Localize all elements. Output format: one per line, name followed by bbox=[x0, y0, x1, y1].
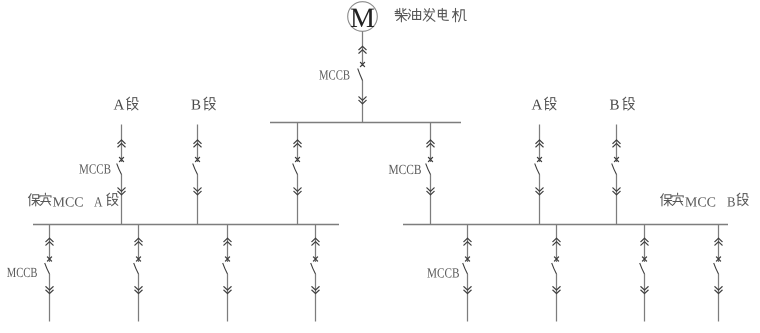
label: A段 (section A, right) bbox=[532, 97, 557, 113]
wire: MCC outgoing feeder bbox=[227, 225, 229, 322]
circuit breaker QFR3 MCC-B outgoing (drawout MCCB: chevrons + x contact + blade) bbox=[640, 238, 649, 293]
circuit breaker QF2 section-B incomer (left) (drawout MCCB: chevrons + x contact + blade) bbox=[193, 140, 202, 195]
wire: MCC outgoing feeder bbox=[49, 225, 51, 322]
wire: MCC outgoing feeder bbox=[315, 225, 317, 322]
wire: MCC outgoing feeder bbox=[138, 225, 140, 322]
svg-text:MCCB: MCCB bbox=[79, 163, 111, 178]
wire: MCC outgoing feeder bbox=[644, 225, 646, 322]
circuit breaker QF5 section-A incomer (right) (drawout MCCB: chevrons + x contact + blade) bbox=[535, 140, 544, 195]
circuit breaker QFR4 MCC-B outgoing (drawout MCCB: chevrons + x contact + blade) bbox=[714, 238, 723, 293]
svg-text:MCCB: MCCB bbox=[389, 163, 422, 178]
label: A段 (section A, left) bbox=[114, 97, 139, 113]
circuit breaker QFL4 MCC-A outgoing (drawout MCCB: chevrons + x contact + blade) bbox=[311, 238, 320, 293]
label: 保安MCC A段 (emergency MCC section A) bbox=[28, 193, 51, 206]
bus: 保安MCC B段 busbar (right) bbox=[403, 224, 728, 226]
svg-text:A: A bbox=[532, 98, 543, 114]
svg-text:MCCB: MCCB bbox=[319, 69, 350, 84]
svg-text:A: A bbox=[94, 196, 103, 211]
bus: 保安MCC A段 busbar (left) bbox=[33, 224, 339, 226]
label: 柴油发电机 (diesel generator name) bbox=[395, 8, 466, 21]
circuit breaker QF1 section-A incomer (left) (drawout MCCB: chevrons + x contact + blade) bbox=[117, 140, 126, 195]
svg-text:MCCB: MCCB bbox=[7, 266, 38, 281]
svg-text:M: M bbox=[350, 3, 375, 34]
wire: MCC outgoing feeder bbox=[467, 225, 469, 322]
circuit breaker QF3 generator feed to MCC-A (drawout MCCB: chevrons + x contact + blade) bbox=[293, 140, 302, 195]
svg-text:B: B bbox=[610, 98, 620, 114]
label: 保安MCC B段 (emergency MCC section B) bbox=[661, 193, 684, 206]
circuit breaker QFL3 MCC-A outgoing (drawout MCCB: chevrons + x contact + blade) bbox=[223, 238, 232, 293]
wire bbox=[121, 125, 123, 225]
wire: main bus to 保安MCC A段 bus bbox=[297, 123, 299, 225]
circuit breaker QFL2 MCC-A outgoing (drawout MCCB: chevrons + x contact + blade) bbox=[134, 238, 143, 293]
main bus (generator switchboard busbar) bbox=[270, 122, 461, 124]
circuit breaker QF6 section-B incomer (right) (drawout MCCB: chevrons + x contact + blade) bbox=[612, 140, 621, 195]
label: B段 (section B, right) bbox=[610, 97, 635, 113]
circuit breaker QFR2 MCC-B outgoing (drawout MCCB: chevrons + x contact + blade) bbox=[552, 238, 561, 293]
circuit breaker QFL1 MCC-A outgoing (drawout MCCB: chevrons + x contact + blade) bbox=[45, 238, 54, 293]
circuit breaker QFR1 MCC-B outgoing (drawout MCCB: chevrons + x contact + blade) bbox=[463, 238, 472, 293]
svg-text:MCC: MCC bbox=[685, 196, 716, 211]
wire: MCC outgoing feeder bbox=[718, 225, 720, 322]
label: 段 glyph of 保安MCC A段 bbox=[107, 193, 118, 206]
wire: generator G1 to main bus bbox=[362, 31, 364, 122]
wire bbox=[616, 125, 618, 225]
svg-text:A: A bbox=[114, 98, 125, 114]
circuit breaker QF0 generator incomer (drawout MCCB: chevrons + x contact + blade) bbox=[358, 46, 367, 104]
wire bbox=[539, 125, 541, 225]
generator G1 (diesel generator, circle with M) bbox=[348, 2, 378, 34]
label: B段 (section B, left) bbox=[191, 97, 215, 113]
circuit breaker QF4 generator feed to MCC-B (drawout MCCB: chevrons + x contact + blade) bbox=[426, 140, 435, 195]
svg-text:MCCB: MCCB bbox=[427, 267, 460, 282]
wire: main bus to 保安MCC B段 bus bbox=[430, 123, 432, 225]
svg-text:MCC: MCC bbox=[53, 196, 84, 211]
svg-text:B: B bbox=[191, 98, 201, 114]
label: 段 glyph of 保安MCC B段 bbox=[737, 193, 748, 206]
svg-text:B: B bbox=[727, 196, 736, 211]
wire: MCC outgoing feeder bbox=[556, 225, 558, 322]
wire bbox=[197, 125, 199, 225]
